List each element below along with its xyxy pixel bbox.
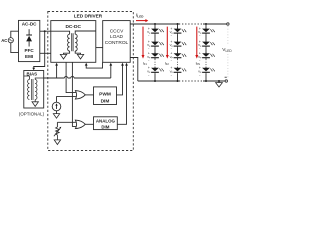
svg-text:ANALOG: ANALOG [96, 119, 116, 124]
svg-text:AC-DC: AC-DC [22, 22, 37, 27]
svg-text:IF1: IF1 [143, 62, 148, 67]
svg-text:ILED: ILED [136, 13, 144, 19]
svg-text:IFN: IFN [196, 62, 201, 67]
svg-text:CONTROL: CONTROL [105, 40, 129, 46]
svg-text:PWM: PWM [99, 92, 111, 98]
svg-text:EMI: EMI [25, 54, 33, 59]
svg-text:(OPTIONAL): (OPTIONAL) [19, 112, 45, 117]
svg-text:PFC: PFC [25, 48, 35, 53]
svg-text:DC-DC: DC-DC [65, 24, 81, 30]
svg-text:LOAD: LOAD [110, 34, 124, 40]
svg-text:DIM: DIM [101, 98, 110, 104]
svg-text:CCCV: CCCV [110, 28, 124, 34]
svg-text:IF2: IF2 [165, 62, 170, 67]
svg-text:LED DRIVER: LED DRIVER [74, 13, 103, 18]
svg-text:AC: AC [1, 38, 7, 43]
svg-text:VLED: VLED [222, 47, 232, 53]
svg-text:DIM: DIM [101, 125, 109, 130]
